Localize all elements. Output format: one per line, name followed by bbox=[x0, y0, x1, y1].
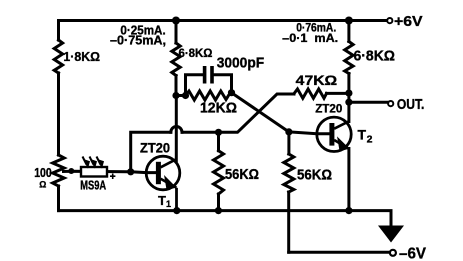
junction dot: left 56K top node bbox=[215, 129, 222, 136]
terminal +6V open circle bbox=[387, 18, 392, 23]
wire: right 56K branch upper bbox=[287, 132, 290, 154]
wire: capacitor right lead bbox=[214, 75, 232, 93]
resistor R3 6.8K left zigzag bbox=[172, 43, 180, 76]
svg-text:6·8KΩ: 6·8KΩ bbox=[179, 46, 213, 60]
svg-text:6·8KΩ: 6·8KΩ bbox=[354, 48, 396, 65]
wire: bottom rail bbox=[59, 211, 392, 226]
svg-text:OUT.: OUT. bbox=[397, 97, 425, 113]
terminal -6V open circle bbox=[390, 250, 396, 256]
junction dot: T2 emitter on rail bbox=[345, 207, 352, 214]
transistor T2 body circle bbox=[317, 117, 351, 151]
wire: capacitor left lead bbox=[186, 75, 203, 96]
wire: T1 base loop up and right with hop over collector bbox=[131, 132, 171, 172]
resistor R8 6.8K right zigzag bbox=[345, 42, 353, 74]
transistor T1 emitter arrowhead bbox=[165, 177, 176, 190]
junction dot: 12K right end bbox=[228, 89, 235, 96]
transistor T1 base bar bbox=[156, 162, 161, 184]
photoresistor MS9A body box bbox=[81, 167, 107, 177]
svg-text:MS9A: MS9A bbox=[80, 178, 106, 193]
svg-text:12KΩ: 12KΩ bbox=[200, 100, 237, 117]
junction dot: top rail / R3 branch bbox=[172, 17, 180, 25]
wire: R2 bottom to bottom rail bbox=[57, 186, 60, 211]
resistor R5 47K zigzag bbox=[294, 89, 327, 98]
wire: OUT lead bbox=[349, 101, 388, 104]
resistor R7 56K right zigzag bbox=[284, 154, 294, 192]
transistor T2 base bar bbox=[329, 123, 334, 146]
wire: left 56K branch upper bbox=[217, 132, 220, 150]
transistor T1 emitter stroke bbox=[161, 179, 177, 188]
transistor T2 emitter stroke bbox=[334, 140, 349, 149]
transistor T1 collector stroke bbox=[161, 159, 177, 167]
wire: left branch from rail down to R1 bbox=[57, 21, 60, 41]
wire: T1 collector riser (12K junction down to T1) bbox=[175, 96, 178, 161]
svg-text:3000pF: 3000pF bbox=[217, 54, 265, 71]
transistor T2 emitter arrowhead bbox=[338, 138, 349, 151]
wire: right 56K bottom through rail down to -6V wire bbox=[287, 192, 290, 252]
svg-text:56KΩ: 56KΩ bbox=[225, 167, 259, 183]
resistor R2 100 ohm zigzag bbox=[53, 155, 65, 186]
resistor R1 1.8K zigzag bbox=[54, 40, 62, 73]
wire: R1 bottom to R2 top bbox=[57, 73, 60, 155]
wire: T1 emitter to rail bbox=[175, 188, 178, 211]
junction dot: T1 base node bbox=[127, 168, 134, 175]
transistor T2 collector stroke bbox=[334, 121, 349, 128]
resistor R6 56K left zigzag bbox=[214, 151, 224, 194]
wire: junction to 12K left end bbox=[176, 94, 186, 97]
svg-text:Ω: Ω bbox=[39, 180, 46, 190]
wire: bottom -6V lead bbox=[289, 251, 390, 254]
wire: +6V terminal stub bbox=[384, 19, 388, 22]
wire hop over T1 collector riser bbox=[171, 127, 182, 133]
svg-text:+6V: +6V bbox=[394, 14, 423, 30]
MS9A light arrow 1 bbox=[83, 157, 90, 168]
junction dot: 100 ohm tap bbox=[68, 168, 74, 174]
wire: left 56K bottom to rail bbox=[217, 194, 220, 211]
power arrow to -6V bbox=[378, 226, 404, 243]
junction dot: T2 base node bbox=[285, 128, 292, 135]
wire: X diagonal from 12K right end down to T2 base node bbox=[232, 93, 289, 132]
junction dot: 47K right / T2 collector node bbox=[345, 90, 352, 97]
junction dot: 12K left end bbox=[182, 92, 189, 99]
wire: collector node down to OUT tap and into T2 bbox=[347, 93, 350, 121]
svg-text:ZT20: ZT20 bbox=[140, 141, 170, 156]
junction dot: left 56K on rail bbox=[215, 207, 222, 214]
svg-text:ZT20: ZT20 bbox=[315, 102, 343, 116]
wire: R3 bottom to junction bbox=[175, 76, 178, 96]
junction dot: top rail / R8 branch bbox=[345, 17, 353, 25]
wire: 47K right end to T2 collector node bbox=[327, 92, 349, 95]
wire: R3 branch top (rail to 6.8K left) bbox=[175, 21, 178, 44]
MS9A light arrow 3 bbox=[97, 157, 104, 168]
svg-text:–6V: –6V bbox=[399, 245, 427, 261]
junction dot: OUT tap bbox=[345, 99, 352, 106]
resistor R4 12K zigzag bbox=[186, 91, 232, 100]
junction dot: T1 emitter on rail bbox=[173, 207, 180, 214]
svg-text:–0·75mA,: –0·75mA, bbox=[110, 34, 166, 48]
svg-text:100: 100 bbox=[34, 165, 52, 180]
wire: base coupling to 56K tap and X rise to 47K bbox=[182, 94, 294, 132]
wire: T2 base node to T2 bbox=[289, 132, 330, 134]
svg-text:56KΩ: 56KΩ bbox=[297, 168, 332, 184]
svg-text:1·8KΩ: 1·8KΩ bbox=[63, 50, 100, 64]
wire: +6V top rail bbox=[59, 19, 386, 22]
svg-text:–0·1 mA.: –0·1 mA. bbox=[282, 31, 338, 45]
wire: R8 bottom to 47K node bbox=[347, 74, 350, 94]
wire: R8 branch top (rail to 6.8K right) bbox=[347, 21, 350, 42]
junction dot: R3 bottom / collector node bbox=[172, 92, 179, 99]
terminal OUT open circle bbox=[388, 101, 393, 106]
MS9A light arrow 2 bbox=[90, 157, 97, 168]
wire: 100 ohm tap to MS9A to T1 base bbox=[64, 171, 156, 172]
MS9A plus mark bbox=[110, 174, 115, 180]
capacitor C1 right plate bbox=[210, 66, 214, 84]
svg-text:47KΩ: 47KΩ bbox=[296, 72, 338, 88]
wire: T2 emitter down to bottom rail bbox=[347, 149, 350, 211]
transistor T1 body circle bbox=[146, 156, 180, 190]
capacitor C1 left plate bbox=[203, 66, 207, 84]
